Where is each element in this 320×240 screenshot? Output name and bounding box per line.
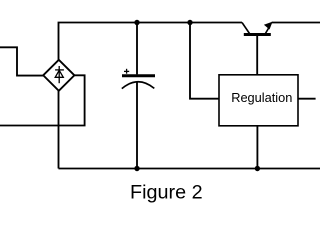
plus sign — [124, 69, 129, 74]
transistor Q1 — [242, 22, 273, 36]
wire input 2 (left lower via right vertex) — [0, 75, 85, 125]
bridge rectifier BR1 — [43, 60, 74, 91]
svg-text:Regulation: Regulation — [231, 90, 292, 105]
wire input 1 (left upper) — [0, 47, 43, 75]
node: regulation bottom junction — [255, 166, 260, 171]
wire regulation right stub — [298, 98, 316, 100]
capacitor C1 — [122, 69, 155, 89]
wire top rail — [59, 23, 243, 61]
node: cap top junction — [134, 20, 139, 25]
wire capacitor top — [136, 23, 138, 75]
wire emitter to right edge — [272, 22, 320, 24]
wire bridge bottom to rail — [58, 91, 60, 169]
node: regulation feed junction — [187, 20, 192, 25]
regulation box U1 — [219, 75, 298, 126]
wire capacitor bottom — [136, 82, 138, 169]
wire bottom rail — [59, 168, 320, 170]
wire regulation bottom to rail — [256, 126, 258, 169]
wire regulation left feed — [190, 23, 219, 99]
node: cap bottom junction — [134, 166, 139, 171]
svg-text:Figure 2: Figure 2 — [130, 182, 203, 204]
wire transistor base to regulation box — [256, 36, 258, 75]
